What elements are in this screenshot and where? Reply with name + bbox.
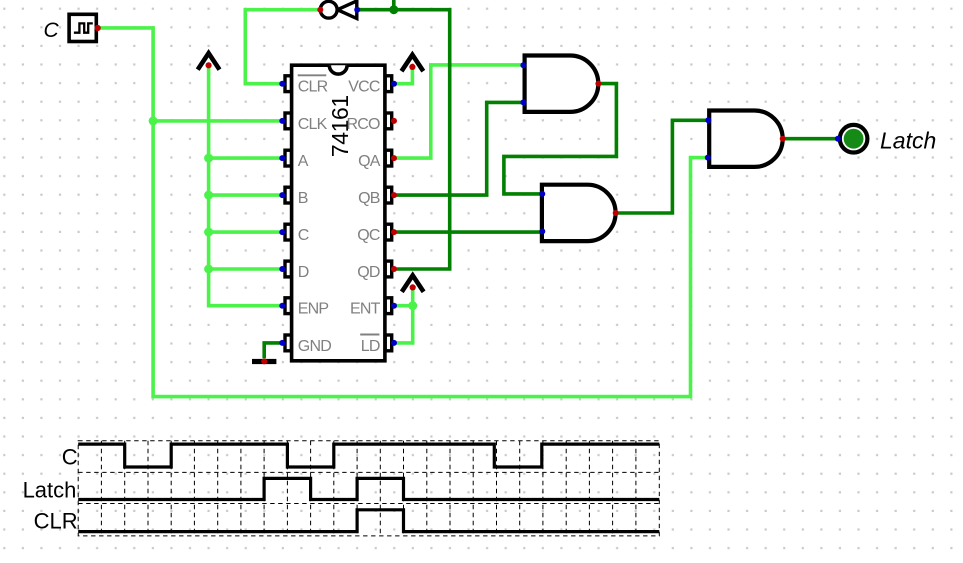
- pin dot QC: [391, 229, 397, 235]
- wire: AND3 output to LED: [783, 137, 839, 141]
- inverter U2 (NOT gate, pointing left): [317, 1, 360, 19]
- pin QB box: [385, 187, 392, 203]
- wire: NOT output left and down to CLR pin: [245, 10, 320, 84]
- wire: power arrow V2 to VCC pin: [394, 67, 412, 84]
- svg-text:ENT: ENT: [350, 301, 381, 318]
- ground: [252, 358, 276, 364]
- pin LD box: [385, 335, 392, 351]
- svg-text:C: C: [44, 19, 60, 42]
- svg-text:VCC: VCC: [348, 79, 380, 96]
- wire: branch to D pin: [209, 267, 283, 271]
- waveform C: [78, 444, 659, 467]
- pin D box: [285, 261, 292, 277]
- pin B box: [285, 187, 292, 203]
- svg-text:RCO: RCO: [346, 116, 380, 133]
- pin dot QB: [391, 192, 397, 198]
- svg-text:C: C: [298, 227, 309, 244]
- svg-text:A: A: [298, 153, 309, 170]
- pin dot QA: [391, 155, 397, 161]
- waveform CLR: [78, 510, 659, 532]
- wire: QD output right, up, left to NOT gate input: [357, 10, 450, 269]
- svg-text:D: D: [298, 264, 309, 281]
- AND gate U5: [705, 111, 786, 167]
- wire: ENT pin stub to power rail: [394, 304, 413, 308]
- wire: QA output up and over to AND1 top input: [394, 65, 523, 158]
- pin dot ENT: [391, 303, 397, 309]
- svg-text:LD: LD: [361, 338, 380, 355]
- pin dot QD: [391, 266, 397, 272]
- pin C box: [285, 224, 292, 240]
- pin dot CLK input: [279, 118, 285, 124]
- pin QD box: [385, 261, 392, 277]
- wire: clock C output to CLK junction, down left side, along bottom, up to AND3 lower input: [98, 28, 708, 397]
- AND gate U4: [539, 185, 618, 241]
- pin VCC box: [385, 76, 392, 92]
- chip body: [292, 65, 385, 361]
- LED output Latch: [835, 125, 867, 153]
- wire: AND1 output routed to AND2 top input: [504, 84, 617, 194]
- node junction at ENT row: [408, 301, 417, 310]
- pin dot C input: [279, 229, 285, 235]
- wire: CLK branch from junction to CLK pin: [153, 119, 282, 123]
- pin dot ENP input: [279, 303, 285, 309]
- node junction at D row: [204, 265, 213, 274]
- pin dot LD: [391, 340, 397, 346]
- power arrow V1: [198, 53, 220, 69]
- pin GND box: [285, 335, 292, 351]
- AND gate U3: [520, 56, 601, 112]
- pin CLR box: [285, 76, 292, 92]
- svg-text:Latch: Latch: [880, 128, 936, 154]
- pin dot B input: [279, 192, 285, 198]
- pin RCO box: [385, 113, 392, 129]
- notch: [329, 65, 347, 74]
- svg-text:QD: QD: [357, 264, 380, 281]
- node junction at C row: [204, 228, 213, 237]
- pin QC box: [385, 224, 392, 240]
- svg-text:Latch: Latch: [23, 477, 77, 502]
- node junction on clock line at CLK row: [149, 116, 158, 125]
- wire: branch to B pin: [209, 193, 283, 197]
- svg-text:C: C: [62, 445, 78, 470]
- clock C: [69, 14, 96, 41]
- svg-text:QB: QB: [358, 190, 380, 207]
- svg-text:CLR: CLR: [298, 79, 328, 96]
- pin CLK box: [285, 113, 292, 129]
- wire: branch to A pin: [209, 156, 283, 160]
- pin dot A input: [279, 155, 285, 161]
- node junction at A row: [204, 154, 213, 163]
- wire: stub up from junction at top: [392, 0, 396, 10]
- waveform Latch: [78, 478, 659, 499]
- wire: QB output up to AND1 bottom input: [394, 102, 523, 195]
- svg-text:CLK: CLK: [298, 116, 328, 133]
- pin QA box: [385, 150, 392, 166]
- power arrow V2: [402, 55, 424, 71]
- svg-text:QA: QA: [358, 153, 381, 170]
- svg-text:B: B: [298, 190, 308, 207]
- wire: power arrow V1 down through A,B,C,D to ENP pin: [209, 65, 283, 306]
- IC U1 74161: [279, 65, 397, 361]
- pin ENT box: [385, 298, 392, 314]
- wire: AND2 output routed to AND3 top input: [616, 120, 709, 213]
- wire: GND pin to ground symbol: [264, 343, 282, 358]
- pin dot clock output: [95, 25, 101, 31]
- pin dot D input: [279, 266, 285, 272]
- wire: QC output to AND2 bottom input: [394, 230, 542, 234]
- node junction at B row: [204, 191, 213, 200]
- pin dot RCO: [391, 118, 397, 124]
- pin dot VCC: [391, 81, 397, 87]
- svg-text:CLR: CLR: [34, 509, 78, 534]
- power arrow V3: [402, 275, 424, 291]
- pin A box: [285, 150, 292, 166]
- wire: power arrow V3 down to LD pin: [394, 287, 413, 343]
- svg-text:GND: GND: [298, 338, 331, 355]
- wire: branch to C pin: [209, 230, 283, 234]
- node junction on NOT input wire: [389, 5, 398, 14]
- timing diagram grid: [78, 441, 659, 536]
- svg-text:QC: QC: [357, 227, 380, 244]
- pin dot CLR input: [279, 81, 285, 87]
- svg-text:ENP: ENP: [298, 301, 329, 318]
- pin ENP box: [285, 298, 292, 314]
- pin dot GND input: [279, 340, 285, 346]
